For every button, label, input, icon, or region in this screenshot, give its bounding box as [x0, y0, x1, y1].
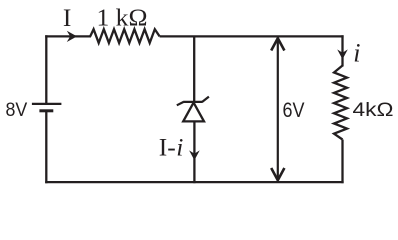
svg-text:4kΩ: 4kΩ	[353, 99, 394, 121]
svg-text:I: I	[63, 3, 72, 32]
svg-text:i: i	[176, 132, 183, 161]
wire zener branch lower	[193, 121, 195, 183]
wire right rail lower	[341, 140, 343, 184]
svg-text:i: i	[353, 39, 360, 68]
voltage arrow 6V (double-headed)	[271, 38, 284, 180]
zener diode D1 (bar with bent tails + triangle)	[177, 97, 209, 122]
wire left rail lower	[45, 111, 47, 183]
wire zener branch upper	[193, 36, 195, 103]
current arrow i (on right rail)	[337, 49, 348, 59]
wire left rail upper	[45, 35, 47, 104]
resistor R1 1 kOhm (zigzag)	[90, 29, 159, 43]
wire right rail upper	[341, 35, 343, 66]
svg-text:I-: I-	[159, 132, 176, 161]
wire top-right segment	[160, 35, 344, 37]
current arrow I-i (on zener branch)	[189, 150, 200, 160]
resistor R2 4kOhm (vertical zigzag)	[334, 66, 347, 140]
current arrow I (on top wire)	[67, 31, 77, 42]
wire bottom	[45, 181, 343, 183]
label I-i	[159, 132, 183, 161]
battery 8V (two plates)	[32, 104, 62, 111]
svg-text:8V: 8V	[6, 99, 28, 121]
svg-text:6V: 6V	[283, 98, 306, 122]
svg-text:1 kΩ: 1 kΩ	[97, 5, 148, 31]
wire top-left segment	[45, 35, 91, 37]
